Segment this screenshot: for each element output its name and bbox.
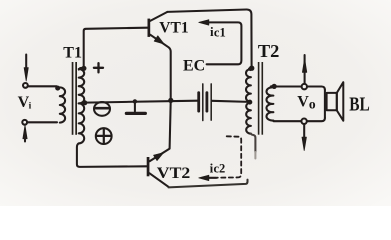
svg-text:T1: T1	[63, 44, 82, 61]
phase symbol circled plus	[96, 128, 112, 144]
transformer T2 core	[258, 62, 263, 135]
wire: T1 secondary bottom to VT2 base	[77, 143, 147, 167]
Vo arrow (top, pointing up)	[302, 55, 306, 84]
node: T1 center tap dot	[82, 100, 87, 105]
wire: T1 secondary top to VT1 base	[84, 28, 148, 67]
svg-text:V: V	[297, 93, 309, 110]
node: Vo top terminal	[302, 84, 307, 89]
node: T2 secondary top dot	[272, 84, 277, 89]
annotation leader loop from EC (ic1 path)	[207, 22, 242, 64]
svg-text:o: o	[309, 96, 316, 111]
phase symbol circled minus	[94, 102, 110, 116]
wire: output top	[274, 87, 325, 90]
wire: middle rail (T1 tap to battery)	[85, 101, 198, 103]
wire: bottom input terminal to T1 primary	[27, 121, 57, 123]
node: T1 secondary top dot	[81, 66, 86, 71]
node: primary top junction dot	[55, 86, 60, 91]
svg-text:i: i	[29, 102, 32, 112]
wire: output right vertical	[324, 90, 326, 118]
wire: bottom rail to T2 primary bottom	[169, 180, 248, 188]
transformer T2 primary upper half	[246, 68, 252, 102]
node: T2 center tap dot	[247, 100, 252, 105]
node: emitter junction dot on rail	[168, 98, 173, 103]
transformer T2 primary lower half	[246, 103, 251, 134]
annotation arrow ic2 (pointing left)	[199, 175, 217, 180]
label Vo	[297, 93, 316, 111]
battery EC plates	[199, 84, 212, 121]
transistor VT2 collector	[149, 173, 168, 187]
speaker BL coil box	[327, 93, 337, 110]
svg-text:VT2: VT2	[157, 165, 191, 182]
Vo arrow (bottom, pointing down)	[302, 124, 306, 150]
input arrow (bottom, pointing up)	[23, 125, 27, 141]
transformer T1 core	[72, 62, 77, 135]
wire: middle rail (battery to T2 tap)	[212, 101, 249, 102]
annotation dashed loop ic2 path	[218, 136, 242, 177]
wire: output bottom	[274, 118, 325, 121]
transformer T1 secondary lower half	[79, 103, 85, 143]
wire: top input terminal to T1 primary	[28, 85, 57, 87]
input terminal node (top)	[23, 83, 28, 88]
transistor VT1 emitter with arrow	[150, 35, 171, 100]
annotation arrow ic1 (pointing left)	[199, 20, 209, 25]
label Vi	[18, 94, 32, 112]
wire: top rail to T2 primary top	[167, 9, 251, 66]
node: Vo bottom terminal	[301, 119, 306, 124]
svg-text:BL: BL	[349, 95, 370, 116]
transformer T2 secondary winding	[266, 86, 274, 120]
label ic1	[210, 24, 226, 39]
transformer T1 primary winding	[60, 87, 65, 122]
svg-text:EC: EC	[183, 57, 205, 74]
wire: T2 primary bottom lead (fading)	[251, 134, 256, 152]
node: T2 primary top dot	[249, 66, 254, 71]
svg-text:c1: c1	[214, 26, 226, 40]
transistor VT2 emitter with arrow	[150, 101, 171, 161]
transistor VT2 base bar	[147, 157, 150, 176]
transistor VT1 base bar	[148, 19, 151, 37]
svg-text:VT1: VT1	[159, 19, 188, 36]
transformer T1 secondary upper half	[79, 68, 85, 103]
transistor VT1 collector	[150, 12, 167, 21]
svg-text:T2: T2	[258, 41, 280, 61]
svg-text:c2: c2	[214, 162, 226, 176]
ground	[126, 99, 145, 113]
polarity + sign near T1 secondary top	[94, 63, 103, 72]
speaker BL cone	[337, 82, 344, 121]
label ic2	[210, 160, 226, 175]
input arrow (top, pointing down)	[24, 55, 28, 82]
input terminal node (bottom)	[22, 120, 27, 125]
